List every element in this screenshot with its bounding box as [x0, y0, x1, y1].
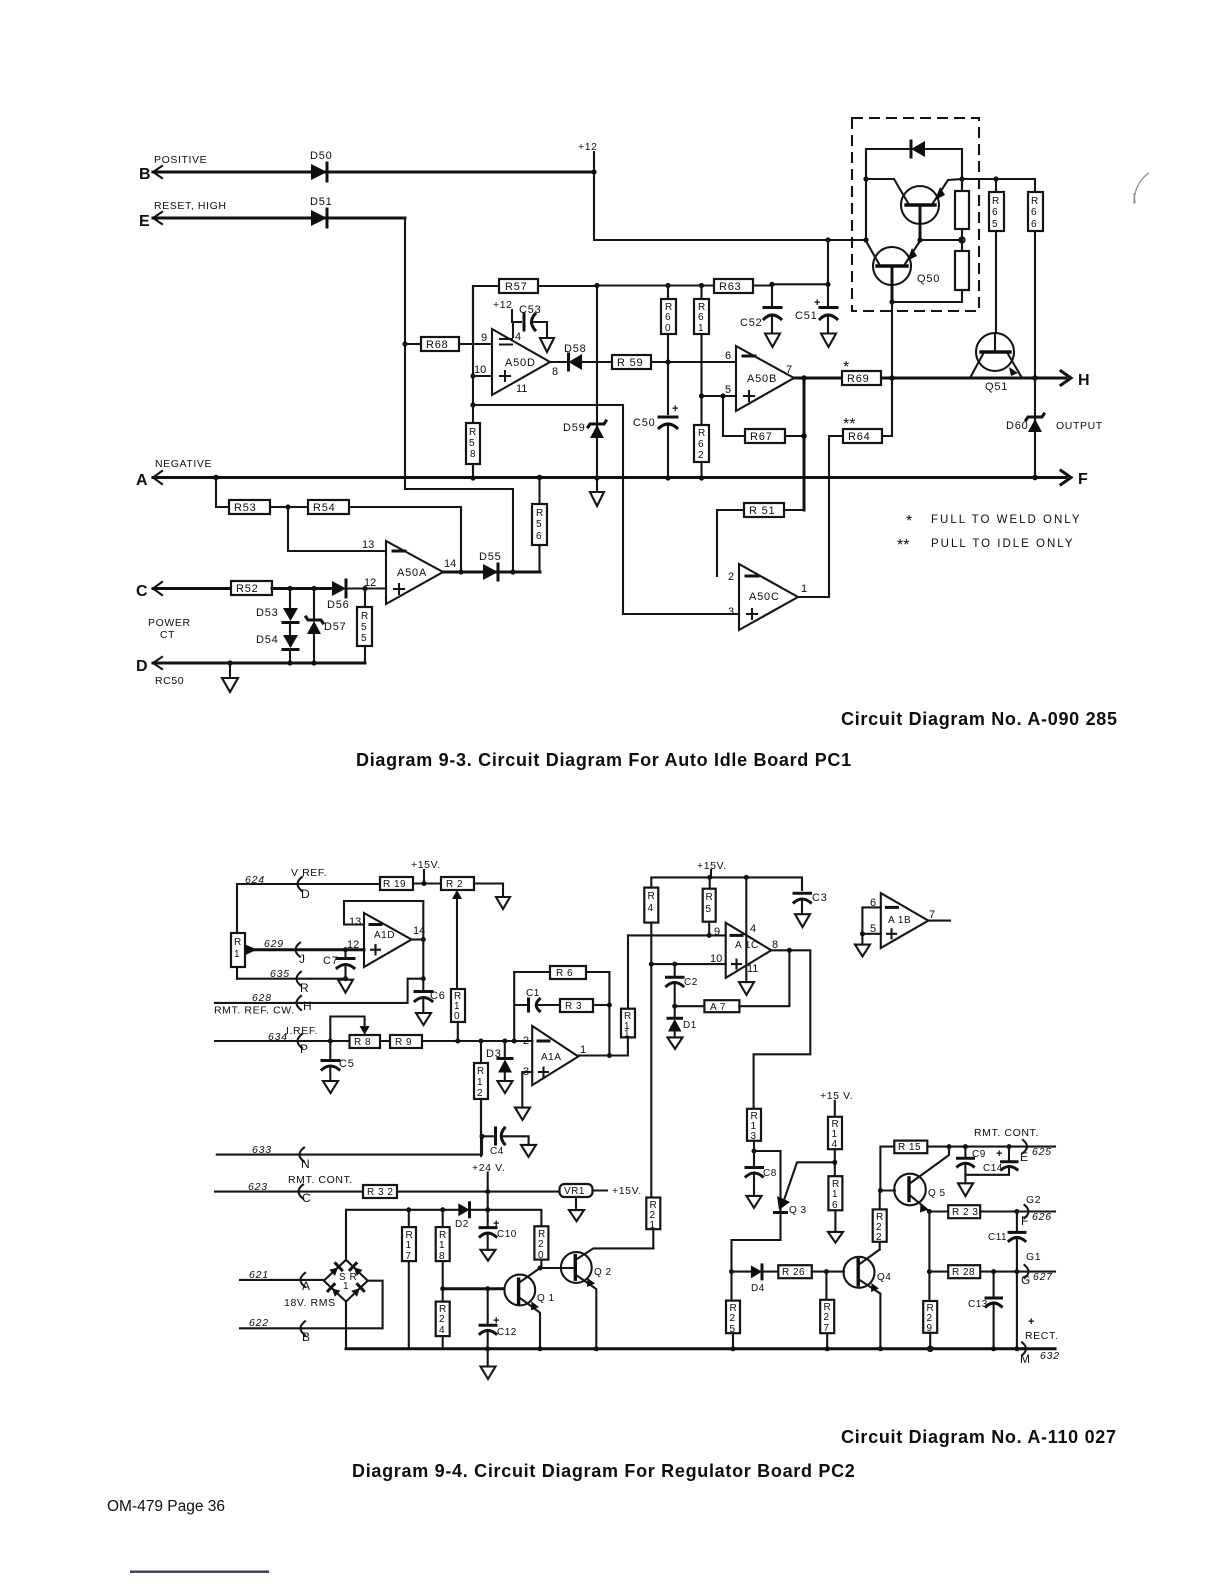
node Q1 emitter rail: [538, 1346, 543, 1351]
svg-text:623: 623: [248, 1181, 268, 1193]
node C11/627 line: [1014, 1269, 1019, 1274]
svg-text:R 19: R 19: [383, 879, 406, 890]
transistor Q50 (lower): [866, 241, 940, 302]
wire R1 top vertical: [236, 884, 238, 933]
wire bridge top to D2 line: [345, 1210, 347, 1260]
capacitor C10: [480, 1210, 517, 1250]
diode D4: [732, 1265, 779, 1294]
wire A50A output: [443, 571, 540, 574]
op-amp A1B: [881, 893, 929, 948]
svg-text:R: R: [1031, 196, 1039, 207]
wire 628 line: [215, 979, 423, 1003]
svg-text:PULL TO IDLE ONLY: PULL TO IDLE ONLY: [931, 538, 1075, 550]
resistor R26: [778, 1265, 844, 1278]
node C14 top: [1007, 1144, 1012, 1149]
svg-text:Q 2: Q 2: [594, 1267, 612, 1278]
pin4 +12/C53 group: [493, 299, 547, 338]
wire 622 line: [240, 1281, 383, 1329]
capacitor C8: [746, 1151, 777, 1196]
wire Q1 base line: [443, 1287, 504, 1290]
node E jog to output line: [510, 569, 515, 574]
terminal break F/626: [1021, 1205, 1052, 1228]
terminal H arrow: [1061, 371, 1090, 389]
svg-text:RESET, HIGH: RESET, HIGH: [154, 200, 227, 212]
svg-text:C7: C7: [323, 955, 339, 967]
node 628 joins: [421, 976, 426, 981]
svg-text:1: 1: [698, 323, 704, 334]
svg-text:1: 1: [477, 1077, 483, 1088]
resistor R9: [390, 1035, 422, 1048]
svg-text:9: 9: [481, 332, 487, 344]
wire +24 stub: [487, 1173, 489, 1210]
resistor R7: [675, 951, 790, 1013]
arrow 629/J: [296, 943, 306, 966]
svg-text:C51: C51: [795, 310, 818, 322]
node R6-C1 riser on 634: [512, 1039, 517, 1044]
wire A1B pin5: [862, 933, 880, 935]
node C50 top: [665, 359, 670, 364]
svg-text:D59: D59: [563, 422, 586, 434]
wire base node to resistor divider: [920, 239, 962, 241]
svg-text:Q4: Q4: [877, 1272, 891, 1283]
svg-text:1: 1: [580, 1044, 586, 1056]
svg-text:R: R: [648, 891, 656, 902]
svg-text:M: M: [1020, 1352, 1030, 1366]
resistor R58: [466, 423, 480, 464]
resistor R18: [436, 1210, 450, 1302]
wire A1C supply pin4/pin11: [745, 877, 747, 982]
node C52 top: [769, 282, 774, 287]
ground under C51: [821, 334, 836, 348]
node pin10/R58: [470, 373, 475, 378]
node R29 rail: [928, 1347, 933, 1352]
node C11 top: [1014, 1209, 1019, 1214]
node C5/R8 wiper: [328, 1039, 333, 1044]
svg-text:2: 2: [523, 1035, 529, 1047]
wire B line: [153, 171, 594, 174]
terminal break G/627: [1021, 1265, 1053, 1287]
wire A1C pin10 line: [651, 963, 725, 965]
svg-text:621: 621: [249, 1269, 269, 1281]
wire A50A pin13 input: [288, 507, 386, 551]
node R5/pin9: [707, 933, 712, 938]
svg-text:R69: R69: [847, 373, 870, 385]
node R26/R27/Q4 base: [824, 1269, 829, 1274]
svg-text:6: 6: [698, 439, 704, 450]
svg-text:6: 6: [1031, 207, 1037, 218]
svg-text:7: 7: [786, 364, 792, 376]
svg-text:A 1B: A 1B: [888, 915, 911, 926]
node R55 top: [362, 586, 367, 591]
resistor R23: [929, 1205, 1055, 1218]
svg-text:NEGATIVE: NEGATIVE: [155, 458, 212, 470]
ground under R16: [828, 1232, 843, 1243]
node R66/H: [1032, 375, 1038, 381]
capacitor C9: [958, 1147, 1010, 1175]
node +24/D2 line: [485, 1207, 490, 1212]
node C13 top: [991, 1269, 996, 1274]
svg-text:5: 5: [706, 904, 712, 915]
resistor R27: [820, 1272, 834, 1349]
svg-text:D: D: [301, 887, 310, 901]
resistor R11: [621, 935, 635, 1039]
svg-text:Q50: Q50: [917, 273, 940, 285]
resistor R53: [216, 478, 270, 515]
wire R57 line to R63: [597, 284, 772, 286]
wire +12 feed: [594, 152, 865, 240]
note PULL TO IDLE: [897, 537, 1075, 554]
svg-text:R 15: R 15: [898, 1142, 921, 1153]
svg-text:6: 6: [536, 531, 542, 542]
wire A1D output: [412, 938, 424, 940]
wire +15 stub: [710, 870, 712, 877]
op-amp A50C: [739, 564, 798, 630]
svg-text:N: N: [301, 1157, 310, 1171]
node R4/pin10: [649, 962, 654, 967]
svg-text:C2: C2: [684, 977, 698, 988]
svg-text:FULL TO WELD ONLY: FULL TO WELD ONLY: [931, 514, 1082, 526]
node C9 top: [963, 1144, 968, 1149]
svg-text:+12: +12: [493, 299, 513, 311]
svg-text:+15 V.: +15 V.: [820, 1090, 853, 1102]
wire Q50 base down to R69 line: [891, 302, 893, 378]
ground under rail: [481, 1367, 496, 1380]
node R25 rail: [731, 1346, 736, 1351]
svg-text:R68: R68: [426, 339, 449, 351]
wire A1A pin3 to ground: [522, 1072, 532, 1108]
resistor R21: [646, 1198, 660, 1249]
wire C line: [153, 587, 231, 590]
svg-text:0: 0: [454, 1011, 460, 1022]
node R3/riser: [607, 1003, 612, 1008]
wire R12 bottom to C4: [480, 1099, 482, 1136]
svg-text:+: +: [672, 403, 678, 415]
resistor R62: [694, 396, 709, 478]
diode top (in box): [866, 141, 962, 157]
node +15/R5: [707, 875, 712, 880]
node R7/output: [787, 948, 792, 953]
node +15/pin4 riser: [744, 875, 749, 880]
svg-text:+: +: [493, 1315, 499, 1327]
wire A1C pin9 line: [628, 934, 726, 936]
svg-text:*: *: [906, 513, 912, 530]
ground under C9: [958, 1175, 973, 1196]
svg-text:C4: C4: [490, 1146, 504, 1157]
svg-text:3: 3: [728, 606, 734, 618]
svg-text:1: 1: [343, 1281, 349, 1292]
node R17 top: [406, 1207, 411, 1212]
resistor R63: [714, 279, 753, 293]
svg-text:2: 2: [538, 1239, 544, 1250]
svg-text:D56: D56: [327, 599, 350, 611]
node D3 top: [502, 1039, 507, 1044]
potentiometer R2: [441, 877, 503, 897]
node C line/D53: [287, 586, 292, 591]
svg-text:13: 13: [349, 916, 361, 928]
svg-text:R 28: R 28: [952, 1267, 975, 1278]
dashed enclosure: [852, 118, 979, 311]
wire A1A output: [578, 1037, 628, 1055]
svg-text:4: 4: [515, 331, 521, 343]
diode D2: [455, 1203, 470, 1230]
label + RECT.: [1025, 1316, 1058, 1342]
svg-text:A: A: [302, 1279, 310, 1293]
svg-text:C13: C13: [968, 1299, 988, 1310]
svg-text:1: 1: [439, 1240, 445, 1251]
svg-text:634: 634: [268, 1031, 288, 1043]
svg-text:R: R: [536, 508, 544, 519]
svg-text:8: 8: [772, 939, 778, 951]
ground under D1: [668, 1037, 683, 1049]
op-amp A1D: [364, 913, 412, 967]
capacitor C7: [323, 947, 354, 979]
node R57/R60: [665, 283, 670, 288]
resistor R24: [436, 1302, 450, 1349]
capacitor C1: [526, 988, 560, 1011]
wire E vertical to A50A output: [405, 218, 513, 572]
zener D57: [306, 589, 347, 664]
terminal C arrow: [136, 582, 162, 600]
svg-text:C10: C10: [497, 1229, 517, 1240]
resistor R29: [923, 1301, 937, 1349]
resistor R57: [499, 279, 597, 293]
node Q5 base/R22/R15: [878, 1188, 883, 1193]
svg-text:Q51: Q51: [985, 381, 1008, 393]
wire bottom rail: [346, 1347, 1022, 1350]
capacitor C52: [740, 284, 781, 333]
node box top-right: [959, 176, 964, 181]
wire bridge bottom to rail: [345, 1302, 347, 1349]
arrow 622/B: [301, 1321, 311, 1344]
svg-text:11: 11: [747, 963, 758, 975]
wire A50B output vertical (pin7 to R67 and R51): [803, 378, 806, 510]
svg-text:D53: D53: [256, 607, 279, 619]
svg-text:7: 7: [929, 909, 935, 921]
resistor R64: [843, 378, 892, 443]
node +24/623: [485, 1189, 490, 1194]
node D4 line left: [729, 1269, 734, 1274]
svg-text:628: 628: [252, 992, 272, 1004]
svg-text:D58: D58: [564, 343, 587, 355]
resistor R6: [514, 966, 609, 1056]
wire E line: [153, 217, 405, 220]
node Q50a base / Q50 collector: [917, 237, 922, 242]
svg-text:18V. RMS: 18V. RMS: [284, 1297, 336, 1309]
svg-text:RMT. CONT.: RMT. CONT.: [974, 1127, 1039, 1139]
wire R15 left leg: [880, 1147, 894, 1191]
svg-text:R: R: [234, 937, 242, 948]
wire Q50 base bottom link: [892, 301, 962, 303]
wire 633 line: [217, 1136, 482, 1154]
wire A1D feedback loop: [344, 901, 423, 940]
node pin7: [801, 375, 807, 381]
svg-text:R: R: [477, 1066, 485, 1077]
svg-text:D3: D3: [486, 1048, 502, 1060]
wire R58 vertical: [472, 286, 474, 478]
svg-text:+15V.: +15V.: [612, 1185, 642, 1197]
wire pin9 input: [459, 343, 492, 345]
node +12/C51 riser junction: [825, 237, 830, 242]
svg-text:R 9: R 9: [395, 1037, 412, 1048]
svg-text:D1: D1: [683, 1020, 697, 1031]
svg-text:R: R: [706, 892, 714, 903]
node R61/R62 midpoint: [699, 393, 704, 398]
svg-text:1: 1: [234, 949, 240, 960]
resistor R25: [726, 1272, 740, 1349]
svg-text:11: 11: [516, 383, 527, 395]
resistor R22: [873, 1191, 887, 1250]
wire A1B output: [928, 920, 950, 922]
svg-text:RECT.: RECT.: [1025, 1330, 1058, 1342]
capacitor C14: [983, 1147, 1017, 1174]
transistor Q50a (upper of darlington): [866, 179, 962, 240]
node C11 rail: [1014, 1346, 1019, 1351]
transistor Q1: [504, 1268, 554, 1349]
svg-text:2: 2: [730, 1313, 736, 1324]
node A/R53: [213, 475, 219, 481]
wire 634 line: [215, 1040, 532, 1042]
svg-text:4: 4: [750, 923, 756, 935]
resistor R61: [694, 286, 709, 397]
terminal A arrow / NEGATIVE: [136, 458, 212, 489]
svg-text:E: E: [1020, 1150, 1028, 1164]
svg-text:A: A: [136, 472, 148, 489]
node R28 line/R29: [927, 1269, 932, 1274]
svg-text:+15V.: +15V.: [411, 859, 441, 871]
resistor R54: [270, 500, 461, 572]
wire A50B output: [794, 377, 970, 380]
arrow 623/C: [299, 1185, 312, 1205]
terminal B arrow: [139, 166, 162, 183]
svg-text:RC50: RC50: [155, 675, 184, 687]
svg-text:6: 6: [698, 312, 704, 323]
terminal break E/625: [1020, 1140, 1052, 1164]
svg-text:2: 2: [824, 1312, 830, 1323]
svg-text:8: 8: [470, 449, 476, 460]
resistor R55: [357, 589, 372, 664]
node R62/A line: [699, 475, 704, 480]
svg-text:C12: C12: [497, 1327, 517, 1338]
svg-text:635: 635: [270, 968, 290, 980]
node base bottom: [889, 299, 894, 304]
resistor R20: [534, 1226, 548, 1268]
svg-text:R: R: [992, 196, 1000, 207]
resistor R5: [703, 877, 716, 935]
node E/R68 junction: [402, 341, 407, 346]
svg-text:5: 5: [992, 219, 998, 230]
node A1B inputs: [860, 931, 865, 936]
Q3 emitter arrow: [775, 1162, 835, 1216]
ground at A1B: [855, 945, 870, 957]
node Q5 collector/E line: [947, 1144, 952, 1149]
svg-text:C: C: [302, 1191, 311, 1205]
svg-text:CT: CT: [160, 629, 175, 641]
ground under C3: [795, 914, 810, 927]
wire A / F common line: [153, 476, 1066, 479]
faint pencil mark top right: [1134, 173, 1149, 204]
svg-text:R 2: R 2: [446, 879, 463, 890]
R1 wiper arrow + 629 line: [246, 945, 364, 955]
svg-text:J: J: [299, 952, 305, 966]
svg-text:A50A: A50A: [397, 567, 427, 579]
resistor R32: [363, 1185, 397, 1198]
svg-text:Q 3: Q 3: [789, 1205, 807, 1216]
arrow 624: [298, 877, 311, 901]
arrow 634/P: [298, 1034, 309, 1056]
diode D55: [479, 551, 502, 580]
wire pin10 input: [473, 375, 492, 377]
node C2/R7/D1: [672, 1004, 677, 1009]
node D60/F line: [1032, 475, 1038, 481]
svg-text:+: +: [996, 1148, 1002, 1160]
capacitor C12: [480, 1289, 517, 1349]
capacitor C11: [988, 1212, 1025, 1272]
svg-text:0: 0: [665, 323, 671, 334]
resistor R19: [380, 877, 441, 890]
resistor R52: [231, 581, 332, 595]
terminal D arrow: [136, 657, 162, 675]
node Q1 collector / R20 / Q2 base: [538, 1266, 543, 1271]
node R65 top: [993, 176, 998, 181]
svg-text:A 7: A 7: [710, 1002, 726, 1013]
svg-text:Q 1: Q 1: [537, 1293, 555, 1304]
ground under D59 below A line: [596, 478, 598, 492]
svg-text:6: 6: [725, 350, 731, 362]
wire Q2 base line: [540, 1267, 574, 1269]
svg-text:625: 625: [1032, 1146, 1052, 1158]
node Q4 emitter rail: [878, 1346, 883, 1351]
capacitor C51: [795, 284, 837, 333]
node R19/R2: [422, 881, 427, 886]
resistor R3: [560, 999, 609, 1012]
resistor R15: [894, 1141, 1055, 1154]
svg-text:Q 5: Q 5: [928, 1188, 946, 1199]
node pin5/R67: [720, 393, 725, 398]
wire 635 line: [237, 978, 346, 980]
ground under C6: [416, 1013, 431, 1025]
wire R29 vertical: [928, 1212, 930, 1302]
svg-text:D: D: [136, 658, 148, 675]
resistor R10: [451, 989, 465, 1041]
svg-text:R: R: [469, 427, 477, 438]
resistor (upper, in box): [955, 179, 969, 240]
svg-text:6: 6: [1031, 219, 1037, 230]
svg-text:629: 629: [264, 938, 284, 950]
note PULL TO WELD: [906, 513, 1082, 530]
svg-text:A50C: A50C: [749, 591, 780, 603]
terminal break M/632: [1020, 1342, 1060, 1366]
resistor R28: [929, 1265, 1055, 1278]
regulator VR1: [560, 1184, 608, 1210]
svg-text:C53: C53: [519, 304, 542, 316]
svg-text:D50: D50: [310, 150, 333, 162]
wire Q5 base: [880, 1189, 895, 1191]
svg-text:2: 2: [698, 450, 704, 461]
node R57/R61: [699, 283, 704, 288]
svg-text:R54: R54: [313, 502, 336, 514]
svg-text:10: 10: [474, 364, 486, 376]
zener D59: [563, 286, 606, 479]
node +12/B junction: [591, 169, 596, 174]
svg-text:Diagram 9-3. Circuit Diagram F: Diagram 9-3. Circuit Diagram For Auto Id…: [356, 750, 852, 770]
footer rule: [130, 1571, 269, 1573]
svg-text:627: 627: [1033, 1271, 1053, 1283]
svg-text:D55: D55: [479, 551, 502, 563]
transistor Q2: [561, 1248, 653, 1348]
diode D53: [256, 589, 298, 636]
node R13/C8: [752, 1149, 757, 1154]
resistor R51: [717, 503, 804, 576]
